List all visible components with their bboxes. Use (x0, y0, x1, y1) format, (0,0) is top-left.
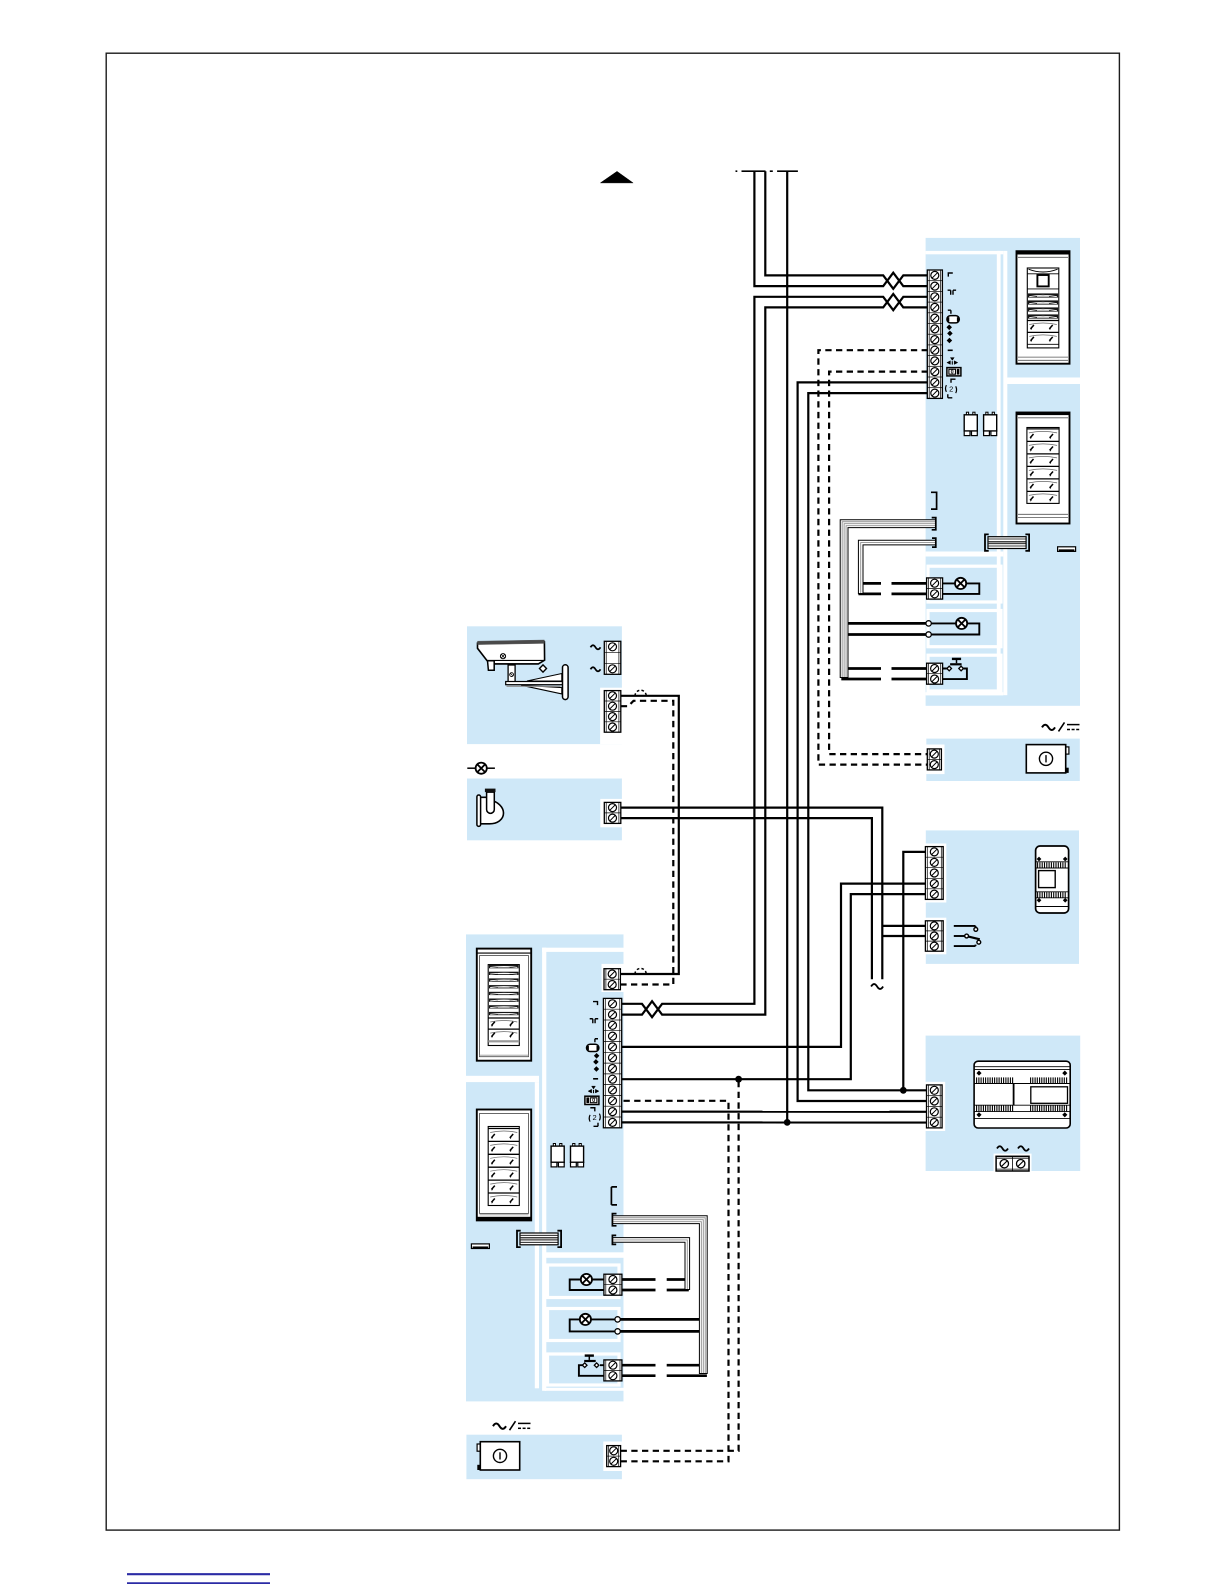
svg-text:2: 2 (949, 385, 953, 394)
svg-text:0: 0 (592, 1098, 595, 1104)
svg-text:0: 0 (951, 370, 954, 376)
svg-text:2: 2 (593, 1113, 597, 1122)
